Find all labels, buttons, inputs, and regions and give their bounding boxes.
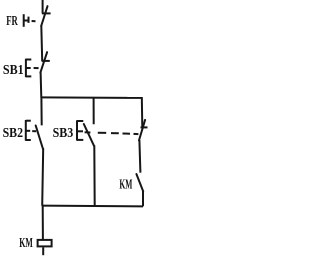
wire NC contact to KM contact [139, 140, 140, 173]
push button NC contact SB1 [40, 52, 49, 72]
svg-text:SB1: SB1 [3, 63, 24, 78]
FR actuator and dashed link [24, 14, 36, 27]
wire SB1 to node A [40, 72, 43, 98]
svg-text:KM: KM [19, 236, 33, 251]
wire FR to SB1 [40, 26, 43, 62]
contactor coil KM [38, 240, 52, 247]
wire KM contact to node B [142, 191, 144, 206]
svg-text:FR: FR [6, 14, 18, 29]
node A horizontal branch wire [41, 96, 142, 99]
push button NO contact SB3 [84, 124, 94, 146]
wire SB2 to node B [42, 148, 43, 206]
thermal relay NC contact FR [41, 6, 50, 26]
push button NC contact SB3-linked [139, 120, 148, 140]
wire below coil [42, 248, 44, 256]
wire top feed [42, 0, 44, 14]
wire SB3 to node B [93, 145, 95, 206]
SB1 actuator E and dashed link [26, 59, 39, 77]
svg-text:KM: KM [119, 178, 132, 193]
wire node B to coil [42, 206, 44, 240]
SB3 mechanical link dashed line [85, 132, 139, 134]
wire node A to SB3 branch [93, 98, 95, 125]
wire right branch drop [141, 97, 144, 127]
auxiliary NO contact KM [136, 174, 143, 191]
svg-text:SB3: SB3 [53, 126, 74, 141]
SB2 actuator E and dashed link [26, 120, 36, 141]
wire node A to SB2 [40, 97, 42, 125]
SB3 actuator E [77, 120, 83, 140]
push button NO contact SB2 [36, 126, 43, 150]
svg-text:SB2: SB2 [3, 126, 23, 141]
node B horizontal wire [42, 205, 143, 208]
